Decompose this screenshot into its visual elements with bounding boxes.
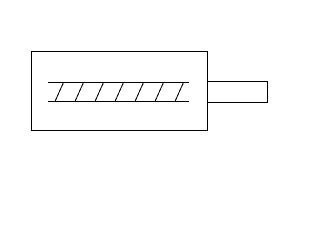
hatch stroke 4 xyxy=(115,83,124,102)
hatch stroke 2 xyxy=(75,83,84,102)
hatch stroke 7 xyxy=(175,83,184,102)
hatch band bottom line xyxy=(48,101,189,103)
hatch stroke 5 xyxy=(135,83,144,102)
main body rectangle xyxy=(32,52,208,131)
hatch band top line xyxy=(48,82,189,84)
hatch stroke 3 xyxy=(95,83,104,102)
stub shaft rectangle xyxy=(208,82,268,103)
hatch stroke 1 xyxy=(55,83,64,102)
hatch stroke 6 xyxy=(155,83,164,102)
